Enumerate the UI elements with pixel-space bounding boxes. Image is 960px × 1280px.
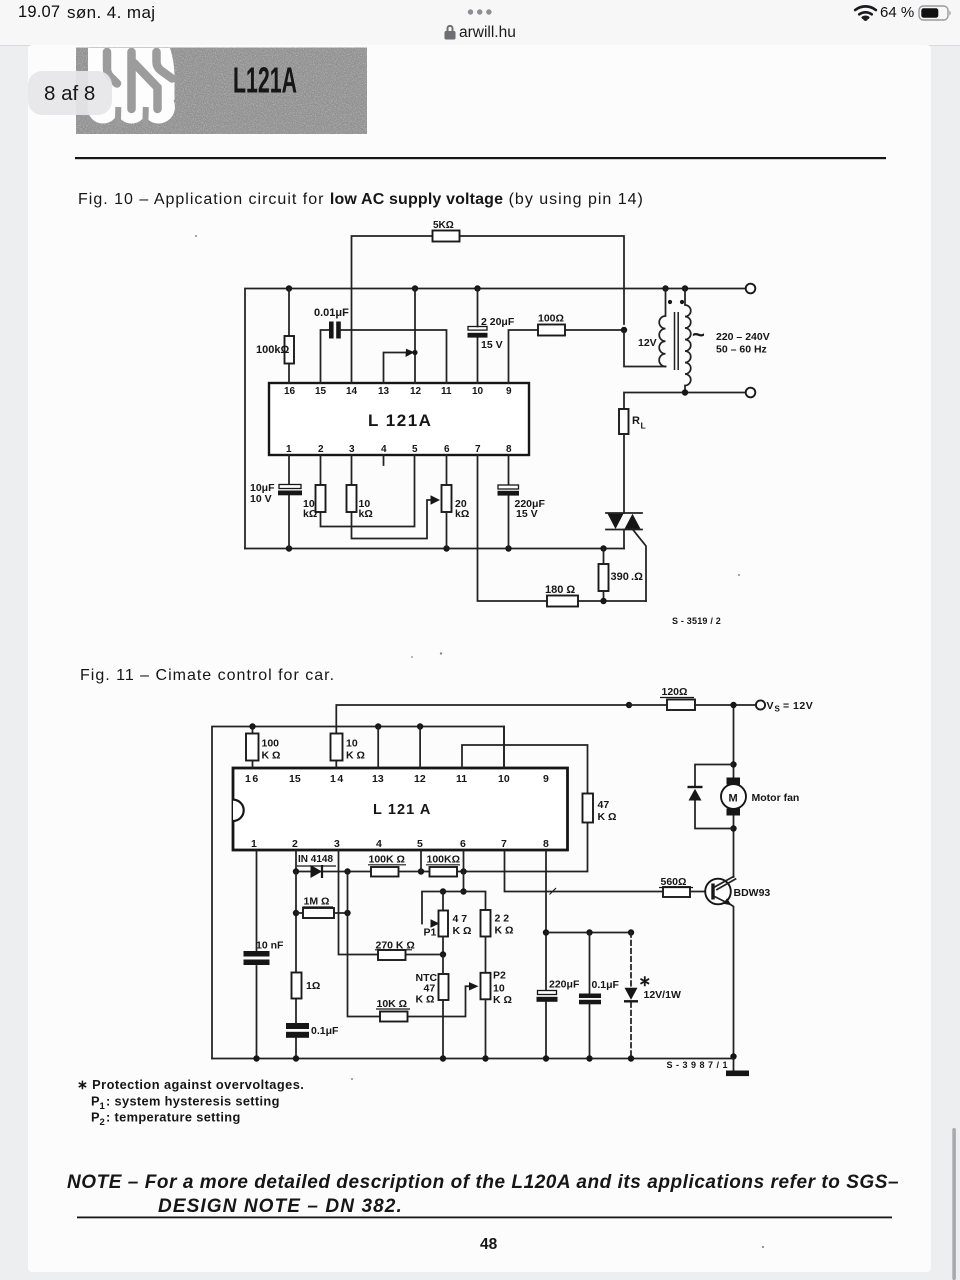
wire diode-1M-10K vertical xyxy=(348,872,381,1017)
node pin5 row xyxy=(418,868,424,874)
wire pin12 riser xyxy=(414,289,416,384)
wire bypass row xyxy=(546,932,631,934)
diode D2 freewheel xyxy=(688,765,734,829)
resistor NTC 47K xyxy=(439,974,449,1000)
resistor 100ohm xyxy=(538,325,565,336)
wire supply rail xyxy=(245,289,746,549)
node pin12 rail xyxy=(412,285,418,291)
capacitor 220uF fig11 plates xyxy=(538,991,557,995)
node diode out xyxy=(344,868,350,874)
node zener top xyxy=(628,929,634,935)
polarity dot right xyxy=(680,300,684,304)
wire pin14 Vs feed xyxy=(336,705,629,768)
node 100ohm right xyxy=(621,327,627,333)
transformer primary winding xyxy=(685,289,691,393)
resistor 560 xyxy=(663,887,690,897)
resistor 180 xyxy=(547,596,578,607)
resistor 22K xyxy=(481,910,491,937)
node pin13 top xyxy=(375,723,381,729)
IC U2 L121A body xyxy=(233,768,568,850)
node pin16 rail xyxy=(286,285,292,291)
wire pin11 to 47K xyxy=(462,745,588,872)
ground symbol xyxy=(733,1059,735,1071)
node Vs junction xyxy=(626,702,632,708)
resistor 100K-b xyxy=(430,867,458,877)
node gnd pin1 xyxy=(253,1055,259,1061)
node pin16 top xyxy=(249,723,255,729)
node 1M right xyxy=(344,910,350,916)
rule under note xyxy=(77,1217,892,1219)
node gnd pin2 xyxy=(293,1055,299,1061)
wire pin2 lower riser xyxy=(295,872,297,1059)
capacitor 0.1uF-b plates xyxy=(579,994,601,999)
node 390 bottom xyxy=(600,598,606,604)
zener diode 12V1W dashed leads xyxy=(630,933,632,1059)
terminal circle Vs xyxy=(756,700,765,709)
wire 5K feedback top xyxy=(352,236,625,383)
wire RL to triac xyxy=(623,434,625,513)
IC notch xyxy=(233,800,244,821)
resistor 10k pin3 xyxy=(347,485,357,512)
wire pin3 riser 270K xyxy=(339,851,444,955)
resistor 1ohm xyxy=(292,973,302,999)
zener bar xyxy=(624,1000,638,1002)
node gnd P2 xyxy=(482,1055,488,1061)
capacitor 220uF plates xyxy=(468,327,487,331)
node gnd zener xyxy=(628,1055,634,1061)
diode D1 IN4148 row xyxy=(296,851,371,872)
wire pin1 riser xyxy=(256,851,258,1059)
resistor 5K xyxy=(433,231,460,242)
node xfmr left rail xyxy=(662,285,668,291)
wire P2 wiper from 10K row xyxy=(380,986,470,1016)
node 0.1uF-b top xyxy=(586,929,592,935)
ground rail fig10 xyxy=(245,548,624,550)
node motor top xyxy=(730,761,736,767)
op-amp IC U1 L121A body xyxy=(269,383,529,455)
wire P1 top net xyxy=(422,892,486,924)
wire pin16 riser xyxy=(288,289,290,384)
wire pin13 link arrow xyxy=(384,353,408,384)
resistor 120 xyxy=(667,700,695,711)
motor M1 xyxy=(721,705,746,829)
ground rail fig11 xyxy=(212,1058,734,1060)
wire cap right to pin11 xyxy=(341,330,447,383)
resistor RL xyxy=(619,409,629,434)
wire pin9 to 100ohm xyxy=(509,330,625,383)
node Vs right xyxy=(730,702,736,708)
resistor 1M xyxy=(303,908,334,918)
8 af 8 page badge xyxy=(28,71,112,115)
wire pin2 riser xyxy=(321,455,415,527)
transistor Q1 BDW93 xyxy=(705,877,735,1059)
wifi icon xyxy=(855,6,876,17)
crossing tick xyxy=(550,888,557,895)
node xfmr right rail xyxy=(682,285,688,291)
wire pin13 riser xyxy=(377,727,379,769)
capacitor 0.01uF plates xyxy=(329,322,341,339)
node pin2 top xyxy=(293,868,299,874)
wire pin7 riser xyxy=(478,455,647,601)
horizontal rule under header xyxy=(75,157,886,159)
diode triangle xyxy=(311,865,323,878)
node 390 top xyxy=(600,545,606,551)
terminal circle top right xyxy=(746,284,756,294)
battery icon xyxy=(919,6,948,20)
wire pin5 riser xyxy=(420,851,422,872)
capacitor 0.1uF pin2 plates xyxy=(286,1023,309,1029)
node pin2 1M xyxy=(293,910,299,916)
SGS header grey box xyxy=(76,48,367,135)
wire top rail fig11 xyxy=(212,727,504,1059)
node pin6 row xyxy=(460,868,466,874)
tab dots xyxy=(0,0,960,45)
node pin8 gnd xyxy=(505,545,511,551)
node 270K right xyxy=(440,951,446,957)
resistor 100K-a xyxy=(371,867,399,877)
wire 12V winding return xyxy=(624,330,666,367)
wire pin1 riser xyxy=(288,455,290,549)
SGS logo (white letterforms) xyxy=(88,48,176,127)
polarity dot left xyxy=(668,300,672,304)
node pin1 gnd xyxy=(286,545,292,551)
node gnd 220uF xyxy=(543,1055,549,1061)
node primary bottom xyxy=(682,389,688,395)
node P1 net left xyxy=(440,888,446,894)
wire pin4 stub xyxy=(383,455,385,465)
wire pin6 riser xyxy=(463,851,465,892)
potentiometer P2 10K xyxy=(481,973,491,1000)
wire collector to motor xyxy=(733,829,735,878)
node pin12 top xyxy=(417,723,423,729)
resistor 47K right xyxy=(583,794,594,823)
wire pin10 riser xyxy=(477,289,479,384)
node gnd NTC xyxy=(440,1055,446,1061)
node pin12 link xyxy=(412,350,417,355)
node motor bottom xyxy=(730,825,736,831)
wire pin3 riser xyxy=(352,455,434,539)
wire pin12 riser xyxy=(419,727,421,769)
resistor 390 xyxy=(599,564,609,591)
resistor 100k xyxy=(285,336,295,364)
lock icon xyxy=(445,25,456,40)
wire pin7 to 560 xyxy=(505,851,706,892)
node P1 net right xyxy=(460,888,466,894)
zener triangle xyxy=(625,988,638,1000)
node pin8 bypass xyxy=(543,929,549,935)
potentiometer 20k xyxy=(442,485,452,512)
wire cap left to pin15 xyxy=(321,330,330,383)
wire pin8 riser xyxy=(508,455,510,549)
wire mains bottom xyxy=(624,393,746,410)
resistor 100K pin16 xyxy=(246,734,259,761)
capacitor 10nF plates xyxy=(244,951,270,957)
resistor 10k pin2 xyxy=(316,485,326,512)
transformer T1 12V secondary winding xyxy=(659,289,665,367)
node pin6 gnd xyxy=(443,545,449,551)
node gnd emitter xyxy=(730,1053,736,1059)
browser chrome bar xyxy=(0,0,960,46)
potentiometer P1 47K xyxy=(439,911,449,937)
wire pin10 riser xyxy=(503,727,505,769)
wire pin8 riser xyxy=(545,851,547,1059)
resistor 10K pin14 xyxy=(331,734,343,761)
node gnd 0.1uF-b xyxy=(586,1055,592,1061)
resistor 10K row xyxy=(380,1012,408,1022)
resistor 270K xyxy=(378,950,406,960)
capacitor 220uF-2 plates xyxy=(498,485,519,489)
transformer core xyxy=(675,312,679,370)
node pin10 rail xyxy=(474,285,480,291)
wire pin6 riser xyxy=(446,455,448,549)
capacitor 10uF plates xyxy=(279,485,301,489)
triac Q1 xyxy=(606,513,646,601)
terminal circle bottom right xyxy=(746,388,756,398)
